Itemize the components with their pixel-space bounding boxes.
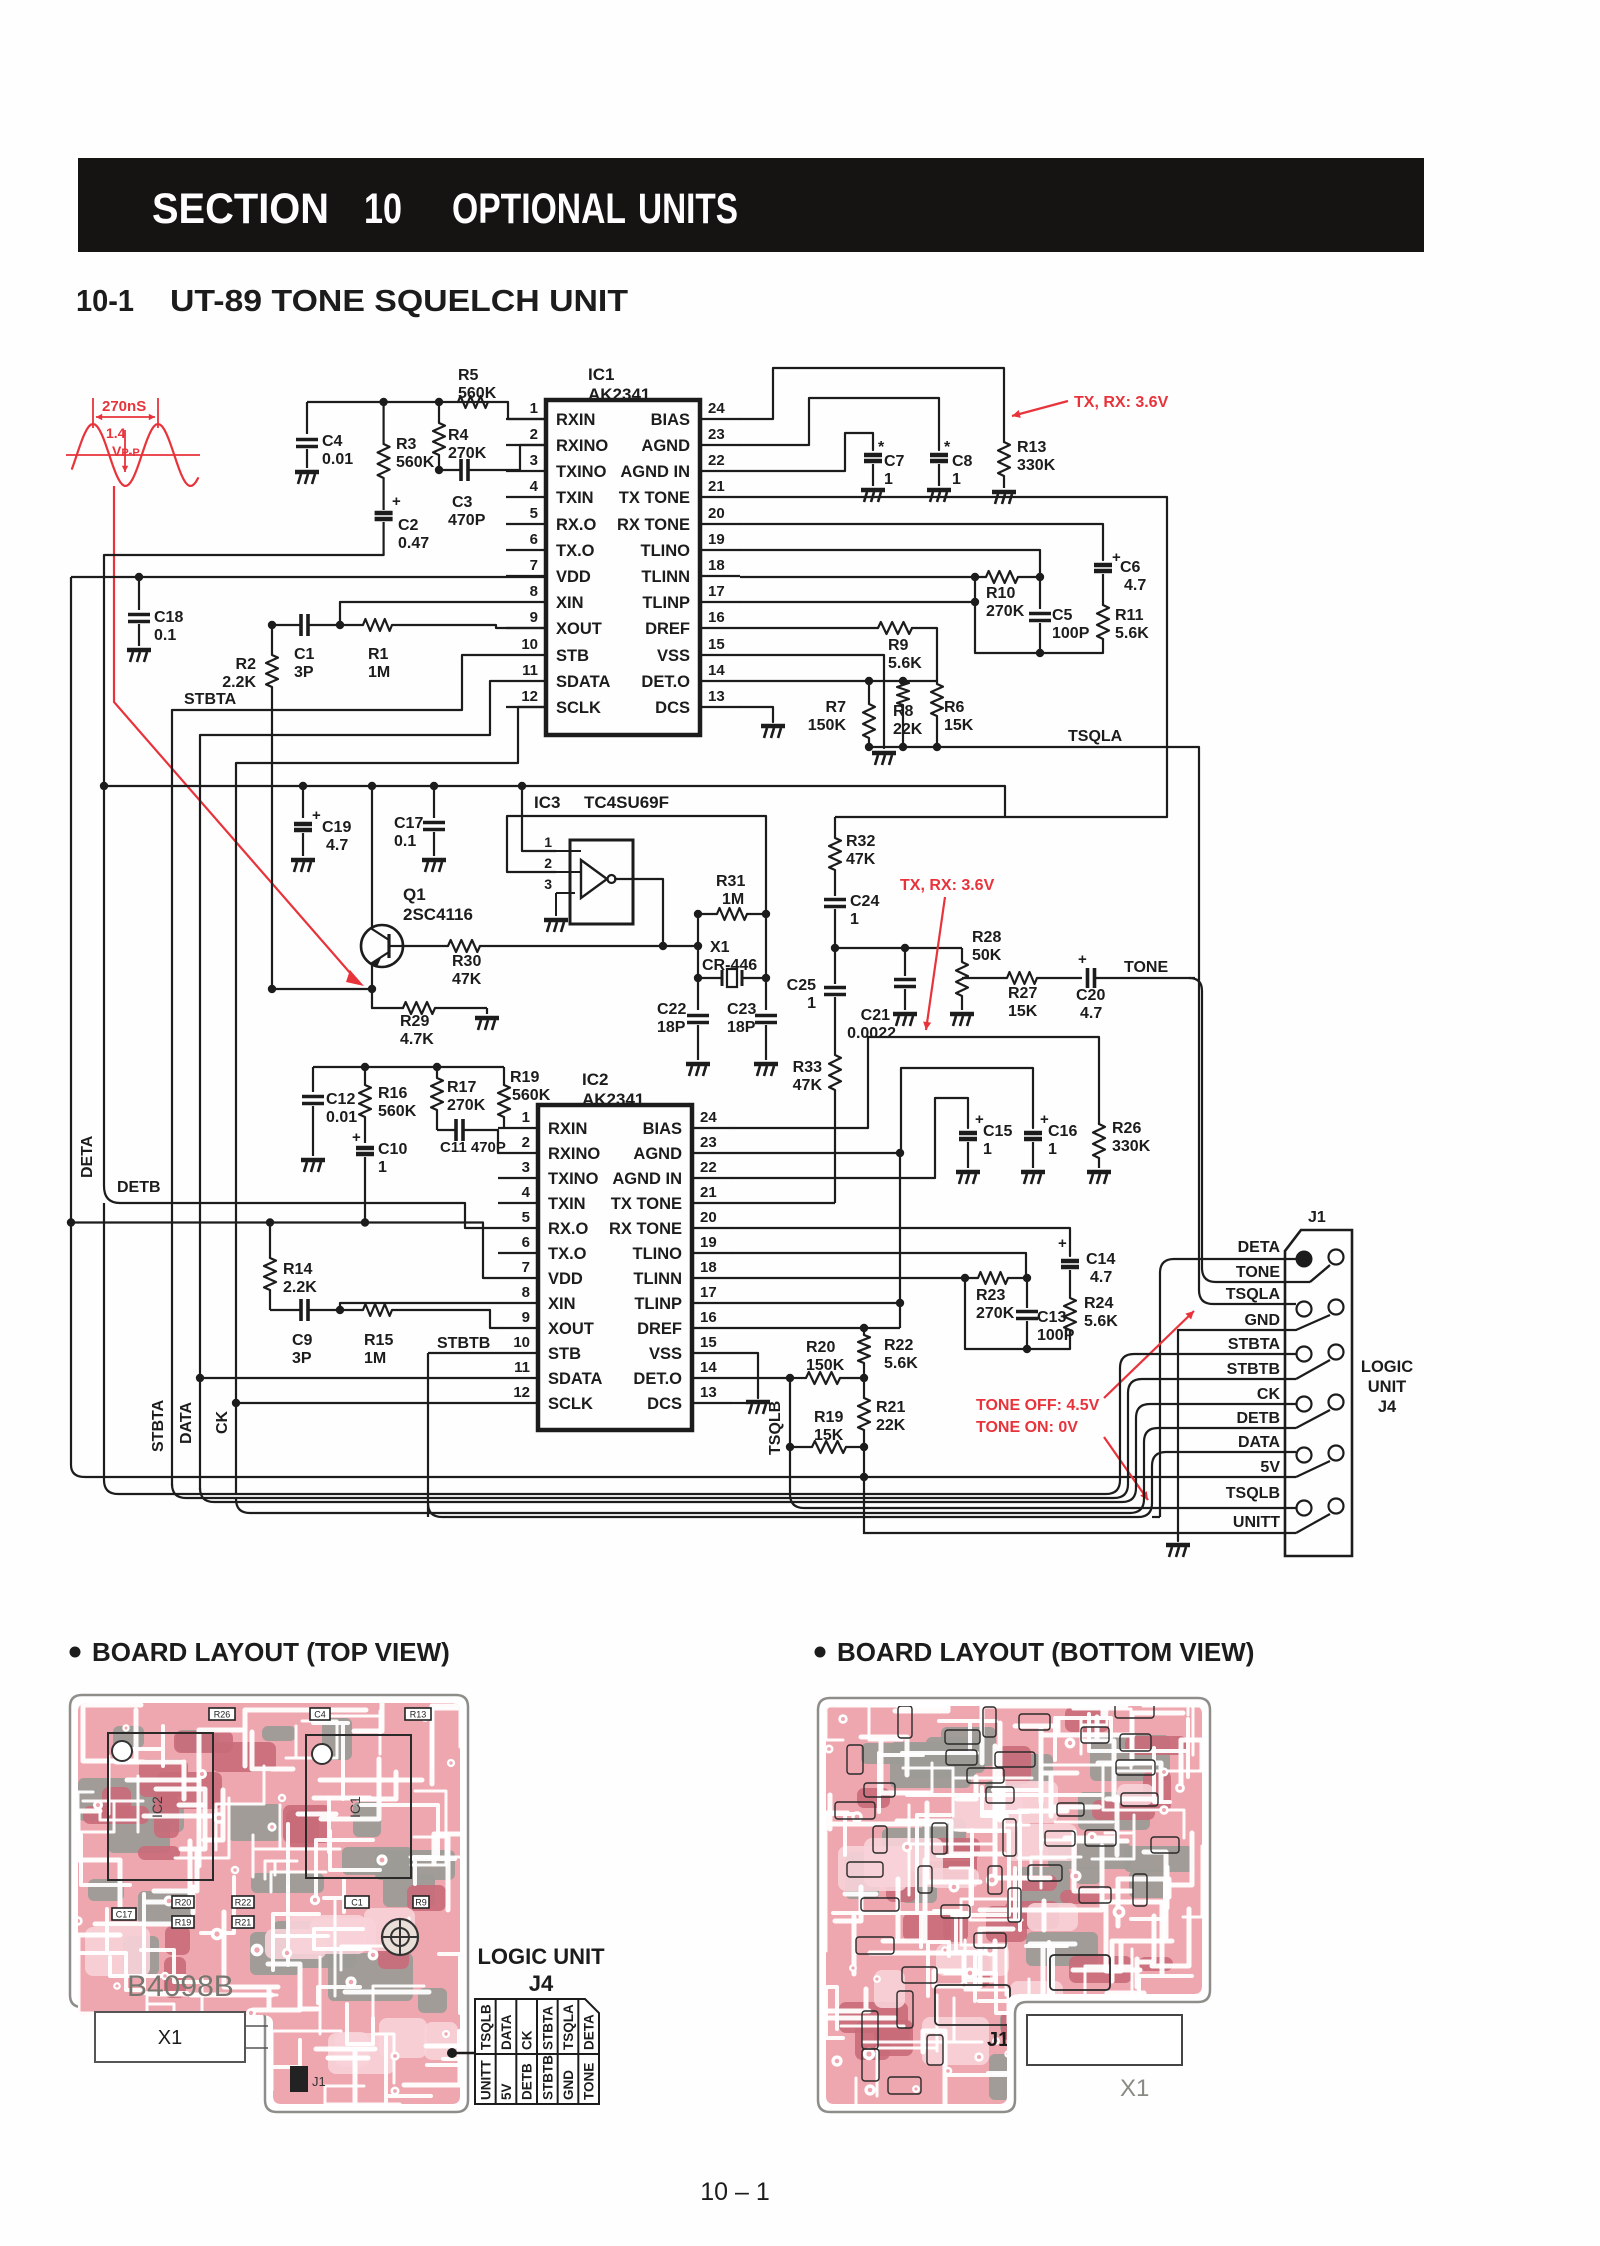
wire IC2 TLINP pin17: [732, 1302, 900, 1304]
svg-text:2.2K: 2.2K: [222, 674, 256, 691]
wire rail to Q1 from R2/R14 net: [272, 988, 372, 990]
svg-text:C7: C7: [884, 453, 905, 470]
svg-text:3: 3: [544, 876, 552, 892]
svg-text:15: 15: [700, 1334, 717, 1351]
svg-text:TX.O: TX.O: [556, 542, 595, 560]
IC IC3 TC4SU69F inverter: [534, 793, 669, 924]
svg-text:AGND: AGND: [641, 437, 690, 455]
svg-text:IC3: IC3: [534, 793, 560, 812]
capacitor C10 1 polarized: [352, 1129, 407, 1223]
capacitor C13 100P: [1016, 1278, 1075, 1349]
svg-text:UNITT: UNITT: [1233, 1514, 1280, 1531]
C19 ground: [291, 860, 315, 872]
svg-text:17: 17: [708, 583, 725, 600]
resistor R13 330K: [998, 439, 1056, 488]
svg-text:DET.O: DET.O: [633, 1370, 682, 1388]
svg-text:18: 18: [708, 557, 725, 574]
svg-text:18P: 18P: [727, 1019, 756, 1036]
svg-text:4.7: 4.7: [1080, 1005, 1102, 1022]
svg-text:R32: R32: [846, 833, 875, 850]
wire TLINN pin18 through R10: [740, 576, 986, 578]
svg-text:C11 470P: C11 470P: [440, 1139, 506, 1156]
wire TONE row: [962, 977, 1007, 979]
svg-text:20: 20: [700, 1209, 717, 1226]
resistor R11 5.6K: [1097, 605, 1149, 653]
capacitor C6 4.7 polarized: [1094, 549, 1146, 605]
svg-text:IC2: IC2: [149, 1796, 165, 1818]
svg-text:SECTION: SECTION: [152, 185, 329, 233]
svg-text:TSQLA: TSQLA: [1068, 728, 1123, 745]
resistor R10 270K: [971, 571, 1044, 620]
wire TSQLB left leg: [789, 1378, 791, 1447]
svg-text:22K: 22K: [893, 721, 923, 738]
svg-text:DET.O: DET.O: [641, 673, 690, 691]
wire IC2 TLINO pin19 to R23 right node: [732, 1253, 1026, 1278]
wire STBTB vertical: [427, 1353, 429, 1517]
svg-text:TX.O: TX.O: [548, 1245, 587, 1263]
svg-text:IC1: IC1: [588, 365, 614, 384]
svg-text:4.7: 4.7: [1090, 1269, 1112, 1286]
R29 ground: [486, 1008, 488, 1014]
wire VDD branch to IC2 pin7: [71, 1223, 498, 1279]
svg-text:20: 20: [708, 505, 725, 522]
svg-text:4: 4: [530, 478, 539, 495]
wire STBTA line to IC1 STB pin10: [172, 655, 506, 710]
svg-text:DATA: DATA: [1238, 1434, 1281, 1451]
PCB top view IC1 outline: [306, 1735, 411, 1878]
capacitor C11 470P: [437, 1119, 506, 1156]
svg-text:TX TONE: TX TONE: [619, 489, 690, 507]
resistor R1 1M: [340, 619, 496, 681]
PCB top view mounting hole left: [112, 1741, 132, 1761]
svg-text:270K: 270K: [976, 1305, 1015, 1322]
svg-text:560K: 560K: [378, 1103, 417, 1120]
resistor R9 5.6K: [878, 622, 922, 672]
svg-text:0.1: 0.1: [154, 627, 176, 644]
J1 diagonal 5V: [1296, 1461, 1330, 1477]
svg-text:R22: R22: [884, 1337, 913, 1354]
svg-text:DETA: DETA: [79, 1135, 96, 1178]
wire IC2 AGND pin23 to C16: [732, 1068, 1033, 1153]
svg-text:9: 9: [522, 1309, 530, 1326]
svg-text:+: +: [352, 1129, 361, 1146]
op-amp/IC U1: IC1 AK2341: [506, 365, 740, 735]
transistor Q1 2SC4116: [361, 885, 473, 967]
svg-text:18P: 18P: [657, 1019, 686, 1036]
svg-text:R8: R8: [893, 703, 914, 720]
svg-text:3P: 3P: [292, 1350, 312, 1367]
svg-text:R5: R5: [458, 367, 479, 384]
C16 ground: [1021, 1172, 1045, 1184]
wire bus CK bottom: [200, 1404, 1296, 1502]
PCB top view IC2 outline: [108, 1708, 431, 2092]
svg-text:10 – 1: 10 – 1: [700, 2178, 770, 2206]
svg-text:RX.O: RX.O: [556, 516, 597, 534]
wire bus DETA riser extension: [1152, 1516, 1160, 1518]
svg-text:R3: R3: [396, 436, 417, 453]
svg-text:DETB: DETB: [520, 2063, 535, 2100]
wire IC2 DET.O pin14 rail: [732, 1377, 790, 1379]
resistor R24 5.6K: [1064, 1295, 1118, 1349]
R28 ground: [950, 1014, 974, 1026]
wire IC2 pin23 riser lower part: [899, 1153, 901, 1328]
wire STBTA left vertical: [171, 710, 173, 1486]
capacitor C24 1: [824, 893, 879, 948]
svg-text:TONE ON: 0V: TONE ON: 0V: [976, 1419, 1078, 1436]
wire STBTB to IC2 STB pin10: [428, 1352, 498, 1354]
C12 ground: [301, 1160, 325, 1172]
svg-text:4: 4: [522, 1184, 531, 1201]
svg-text:16: 16: [700, 1309, 717, 1326]
svg-text:7: 7: [530, 557, 538, 574]
svg-text:10: 10: [364, 185, 402, 233]
resistor R14 2.2K: [264, 1223, 317, 1311]
svg-text:AGND IN: AGND IN: [620, 463, 690, 481]
svg-text:270K: 270K: [986, 603, 1025, 620]
J1 pin pair STBTA STBTB: [1297, 1347, 1312, 1362]
wire AGND pin23 to C8: [740, 398, 939, 450]
svg-text:R21: R21: [876, 1399, 905, 1416]
svg-text:UNITS: UNITS: [638, 185, 738, 233]
DCS ground: [761, 726, 785, 738]
wire DCS pin13 stub: [740, 707, 773, 722]
svg-text:XOUT: XOUT: [548, 1320, 594, 1338]
svg-text:R19: R19: [814, 1409, 843, 1426]
svg-text:1: 1: [544, 834, 552, 850]
svg-text:TLINP: TLINP: [634, 1295, 682, 1313]
svg-text:R29: R29: [400, 1013, 429, 1030]
svg-text:TLINN: TLINN: [641, 568, 690, 586]
capacitor C5 100P: [1029, 577, 1090, 653]
svg-text:TONE OFF: 4.5V: TONE OFF: 4.5V: [976, 1397, 1100, 1414]
svg-text:R16: R16: [378, 1085, 407, 1102]
svg-text:STB: STB: [548, 1345, 581, 1363]
heading board layout top view: [70, 1647, 81, 1658]
svg-text:R26: R26: [1112, 1120, 1141, 1137]
PCB bottom view board outline: [818, 1698, 1210, 2112]
svg-text:5V: 5V: [1260, 1459, 1280, 1476]
svg-text:R15: R15: [364, 1332, 393, 1349]
svg-text:C8: C8: [952, 453, 973, 470]
svg-text:10-1: 10-1: [76, 283, 134, 318]
wire VDD to 5V bus curve: [71, 1465, 85, 1477]
svg-text:DCS: DCS: [655, 699, 690, 717]
wire SDATA to DATA riser: [200, 1377, 498, 1379]
svg-text:R22: R22: [235, 1898, 252, 1908]
svg-text:12: 12: [521, 688, 538, 705]
wire 5V bus: [85, 1476, 1296, 1478]
capacitor C1 3P: [272, 614, 344, 681]
svg-text:14: 14: [708, 662, 725, 679]
svg-text:TLINO: TLINO: [633, 1245, 683, 1263]
svg-text:10: 10: [513, 1334, 530, 1351]
svg-text:0.0022: 0.0022: [847, 1025, 896, 1042]
svg-text:DETB: DETB: [117, 1179, 161, 1196]
svg-text:XIN: XIN: [548, 1295, 576, 1313]
svg-text:RX.O: RX.O: [548, 1220, 589, 1238]
svg-text:BOARD LAYOUT (TOP VIEW): BOARD LAYOUT (TOP VIEW): [92, 1637, 450, 1667]
resistor R17 270K: [431, 1067, 486, 1130]
svg-text:18: 18: [700, 1259, 717, 1276]
svg-text:DATA: DATA: [178, 1401, 195, 1444]
svg-text:330K: 330K: [1112, 1138, 1151, 1155]
svg-text:TONE: TONE: [582, 2063, 597, 2100]
resistor R8 22K: [893, 681, 923, 747]
svg-text:4.7: 4.7: [1124, 577, 1146, 594]
J1 diagonal GND: [1296, 1315, 1330, 1330]
wire R9 to R6 top: [912, 628, 937, 681]
svg-text:J1: J1: [987, 2029, 1009, 2051]
svg-text:J1: J1: [1308, 1209, 1326, 1226]
svg-text:TSQLB: TSQLB: [1226, 1485, 1280, 1502]
svg-text:23: 23: [700, 1134, 717, 1151]
svg-text:CR-446: CR-446: [702, 957, 757, 974]
wire IC3 output to oscillator node: [615, 879, 663, 945]
svg-text:5: 5: [522, 1209, 530, 1226]
svg-text:TLINP: TLINP: [642, 594, 690, 612]
svg-text:R28: R28: [972, 929, 1001, 946]
svg-text:C14: C14: [1086, 1251, 1115, 1268]
wire IC3 pin1 to VDD bus: [522, 786, 556, 851]
wire BIAS pin24 to R13: [740, 368, 1004, 442]
svg-text:R7: R7: [826, 699, 847, 716]
svg-text:R19: R19: [175, 1918, 192, 1928]
capacitor C16 1 polarized: [1024, 1111, 1077, 1168]
svg-text:5: 5: [530, 505, 538, 522]
PCB top view X1 crystal block: [95, 2012, 245, 2062]
IC U2: IC2 AK2341: [498, 1070, 732, 1430]
capacitor C2 0.47 polarized: [375, 493, 430, 555]
svg-text:STBTA: STBTA: [540, 2006, 555, 2050]
svg-text:5.6K: 5.6K: [888, 655, 922, 672]
wire TSQLA tie line: [869, 746, 1199, 748]
svg-text:R20: R20: [175, 1898, 192, 1908]
wire IC2 DCS pin13 stub: [732, 1402, 748, 1404]
svg-text:AK2341: AK2341: [582, 1090, 644, 1109]
wire CK left vertical: [235, 763, 237, 1494]
svg-text:TXINO: TXINO: [548, 1170, 599, 1188]
svg-text:STBTB: STBTB: [437, 1335, 490, 1352]
svg-text:470P: 470P: [448, 512, 486, 529]
svg-text:STB: STB: [556, 647, 589, 665]
svg-text:AGND: AGND: [633, 1145, 682, 1163]
svg-text:R24: R24: [1084, 1295, 1113, 1312]
wire DATA line to IC1 SDATA pin11: [200, 681, 506, 735]
C8 ground: [927, 490, 951, 502]
resistor R32 47K: [829, 817, 876, 896]
svg-text:1M: 1M: [722, 891, 744, 908]
R13 ground: [992, 492, 1016, 504]
wire R1 to XOUT pin9: [496, 625, 546, 628]
svg-text:7: 7: [522, 1259, 530, 1276]
wire IC2 VSS pin15 ground: [732, 1353, 758, 1398]
svg-text:1.4: 1.4: [106, 425, 126, 441]
capacitor C12 0.01: [302, 1067, 357, 1156]
svg-text:*: *: [944, 439, 951, 456]
resistor R27 15K: [1007, 972, 1082, 1020]
wire IC2 TLINN pin18 through R23: [732, 1277, 978, 1279]
svg-text:22: 22: [708, 452, 725, 469]
svg-text:RX TONE: RX TONE: [617, 516, 690, 534]
C22 ground: [686, 1064, 710, 1076]
svg-text:47K: 47K: [452, 971, 482, 988]
wire DREF pin16 through R9: [740, 627, 878, 629]
svg-text:TSQLB: TSQLB: [767, 1401, 784, 1455]
capacitor C14 4.7 polarized: [1058, 1235, 1115, 1298]
svg-text:C6: C6: [1120, 559, 1141, 576]
C7 ground: [861, 490, 885, 502]
svg-text:15: 15: [708, 636, 725, 653]
VSS ground: [872, 753, 896, 765]
svg-text:1: 1: [1048, 1141, 1057, 1158]
wire C5/R11 bottom tie: [975, 577, 1103, 653]
svg-text:11: 11: [514, 1359, 530, 1376]
svg-text:TX, RX: 3.6V: TX, RX: 3.6V: [1074, 394, 1169, 411]
svg-text:1M: 1M: [364, 1350, 386, 1367]
capacitor C15 1 polarized: [959, 1111, 1012, 1168]
svg-text:C12: C12: [326, 1091, 355, 1108]
svg-text:1: 1: [530, 400, 538, 417]
svg-text:SDATA: SDATA: [556, 673, 610, 691]
svg-text:TONE: TONE: [1236, 1264, 1280, 1281]
wire CK line to IC1 SCLK pin12: [236, 707, 546, 763]
svg-text:RX TONE: RX TONE: [609, 1220, 682, 1238]
svg-text:5.6K: 5.6K: [1115, 625, 1149, 642]
resistor R31 1M: [694, 873, 770, 946]
svg-text:C4: C4: [322, 433, 343, 450]
svg-text:47K: 47K: [793, 1077, 823, 1094]
capacitor C17 0.1: [394, 786, 445, 856]
wire board J1 to table: [452, 2052, 475, 2055]
wire top analog bus y786: [104, 785, 1005, 787]
svg-text:C2: C2: [398, 517, 419, 534]
svg-text:R23: R23: [976, 1287, 1005, 1304]
resistor R7 150K: [808, 681, 875, 747]
svg-text:0.01: 0.01: [326, 1109, 357, 1126]
svg-text:CK: CK: [1257, 1386, 1281, 1403]
svg-text:150K: 150K: [808, 717, 847, 734]
wire R15 to IC2 XOUT pin9: [490, 1310, 498, 1328]
svg-text:R9: R9: [888, 637, 909, 654]
svg-text:R17: R17: [447, 1079, 476, 1096]
svg-text:STBTA: STBTA: [150, 1399, 167, 1452]
capacitor C20 4.7 polarized: [1076, 951, 1195, 1022]
C18 ground: [127, 650, 151, 662]
svg-text:C22: C22: [657, 1001, 686, 1018]
wire to IC2 XIN pin8: [340, 1303, 498, 1310]
svg-text:C5: C5: [1052, 607, 1073, 624]
capacitor C8 1 polarized: [930, 439, 973, 488]
svg-text:LOGIC: LOGIC: [1361, 1358, 1413, 1376]
svg-text:C23: C23: [727, 1001, 756, 1018]
wire top input net: [307, 401, 508, 403]
svg-text:R19: R19: [510, 1069, 539, 1086]
svg-text:TXIN: TXIN: [556, 489, 594, 507]
resistor R19b 15K: [786, 1409, 868, 1453]
crystal X1 CR-446: [694, 914, 770, 987]
wire VDD rail horizontal: [71, 576, 546, 578]
svg-text:RXINO: RXINO: [548, 1145, 600, 1163]
resistor R30 47K: [403, 945, 448, 947]
connector J1 outline: [1285, 1209, 1352, 1556]
svg-text:1: 1: [983, 1141, 992, 1158]
wire DETA horizontal to J1: [1160, 1259, 1296, 1517]
svg-text:24: 24: [708, 400, 725, 417]
svg-text:AK2341: AK2341: [588, 385, 650, 404]
wire C3 to IC1 pin2: [520, 445, 546, 470]
svg-text:6: 6: [522, 1234, 530, 1251]
resistor R19 560K: [498, 1067, 551, 1128]
svg-text:2: 2: [530, 426, 538, 443]
svg-text:C10: C10: [378, 1141, 407, 1158]
wire IC2 AGND IN pin22 to C15: [732, 1098, 968, 1178]
resistor R29 4.7K: [372, 1007, 403, 1009]
resistor R20 150K: [790, 1339, 868, 1384]
svg-text:SCLK: SCLK: [548, 1395, 593, 1413]
svg-text:X1: X1: [1120, 2075, 1149, 2102]
svg-text:+: +: [1058, 1235, 1067, 1252]
svg-text:5.6K: 5.6K: [1084, 1313, 1118, 1330]
svg-text:560K: 560K: [458, 385, 497, 402]
wire DETB line to IC2 pin5: [120, 1203, 498, 1228]
wire DATA left vertical: [199, 735, 201, 1490]
svg-text:14: 14: [700, 1359, 717, 1376]
resistor R15 1M: [340, 1304, 490, 1367]
svg-text:2: 2: [544, 855, 552, 871]
svg-text:SDATA: SDATA: [548, 1370, 602, 1388]
wire TSQLA vertical to connector: [1198, 747, 1200, 1290]
svg-text:3: 3: [522, 1159, 530, 1176]
capacitor C21 0.0022: [847, 948, 916, 1042]
capacitor C9 3P: [270, 1299, 344, 1367]
resistor R4 270K: [433, 402, 487, 470]
capacitor C3 470P: [435, 459, 520, 529]
wire IC2 TX TONE pin21 to R33: [732, 1202, 835, 1204]
wire UNITT: [864, 1477, 1296, 1533]
resistor R26 330K: [1093, 1120, 1151, 1168]
red waveform annotation 270nS 1.4Vp-p: [66, 398, 200, 486]
PCB bottom view X1 block: [1027, 2015, 1182, 2065]
section header bar: [78, 158, 1424, 252]
resistor R2 2.2K: [222, 621, 278, 989]
svg-text:STBTB: STBTB: [540, 2055, 555, 2100]
svg-text:X1: X1: [158, 2027, 182, 2049]
svg-text:J1: J1: [312, 2074, 326, 2089]
R26 ground: [1087, 1172, 1111, 1184]
svg-text:5.6K: 5.6K: [884, 1355, 918, 1372]
capacitor C18 0.1: [128, 577, 183, 646]
wire DET.O pin14 rail: [740, 680, 937, 682]
wire IC2 RX TONE pin20 to C14: [732, 1228, 1070, 1256]
svg-text:TSQLA: TSQLA: [561, 2004, 576, 2050]
svg-text:TONE: TONE: [1124, 959, 1168, 976]
J1 diagonal STBTB: [1296, 1360, 1330, 1379]
svg-text:23: 23: [708, 426, 725, 443]
svg-text:1: 1: [884, 471, 893, 488]
svg-text:C17: C17: [116, 1910, 133, 1920]
svg-text:X1: X1: [710, 939, 730, 956]
svg-text:0.01: 0.01: [322, 451, 353, 468]
svg-text:13: 13: [700, 1384, 717, 1401]
capacitor C23 18P: [727, 978, 777, 1060]
resistor R5 560K: [458, 367, 497, 408]
svg-text:GND: GND: [1244, 1312, 1280, 1329]
J1 pin pair DETA TONE: [1296, 1251, 1313, 1268]
wire IC3 pin2 loop to X1 top: [507, 816, 766, 914]
svg-text:C1: C1: [351, 1898, 363, 1908]
svg-text:C13: C13: [1037, 1309, 1066, 1326]
svg-text:C21: C21: [861, 1007, 890, 1024]
